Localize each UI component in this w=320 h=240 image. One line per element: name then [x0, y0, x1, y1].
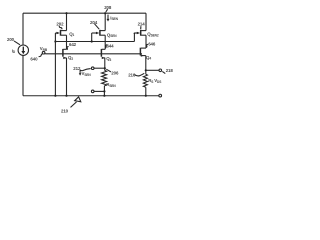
svg-text:VSEN: VSEN	[82, 71, 92, 77]
leader 640	[39, 54, 43, 57]
junction RS bottom rail	[145, 95, 147, 97]
leader 206	[106, 69, 111, 72]
svg-text:210: 210	[61, 108, 69, 113]
svg-text:646: 646	[148, 41, 156, 46]
svg-text:ISEN: ISEN	[110, 15, 118, 21]
resistor RS	[143, 74, 147, 87]
transistor Q2	[63, 49, 67, 59]
wire to VDS terminal	[146, 69, 159, 71]
wire bottom rail	[23, 95, 159, 97]
resistor RSEN	[102, 70, 107, 86]
wire QSEN2 gate riser	[133, 33, 135, 42]
svg-text:Q2: Q2	[68, 55, 73, 61]
junction QSEN rail	[104, 12, 106, 14]
svg-text:ID: ID	[12, 48, 16, 54]
wire QSEN2 drain to rail corner	[145, 13, 147, 30]
svg-text:204: 204	[90, 20, 98, 25]
wire Q2 source down	[66, 58, 68, 96]
svg-text:212: 212	[73, 66, 81, 71]
wire mirror gate bus	[55, 41, 134, 43]
wire QSEN source down	[104, 35, 106, 49]
leader 202	[59, 26, 62, 29]
leader 204	[95, 24, 100, 29]
wire VRB to bias bus	[45, 53, 142, 55]
svg-text:QSEN: QSEN	[107, 32, 117, 38]
wire mirror bus down to bottom rail	[54, 42, 56, 96]
junction VDS tap	[145, 69, 147, 71]
leader 646	[146, 44, 148, 47]
leader 642	[67, 47, 69, 50]
wire Q3 source down	[104, 58, 106, 71]
svg-text:202: 202	[56, 22, 64, 27]
junction bus QSEN	[91, 40, 93, 42]
leader 218	[162, 71, 165, 73]
svg-text:RSEN: RSEN	[106, 82, 116, 88]
wire Q1 source down	[66, 35, 68, 49]
leader 210 open arrow	[71, 102, 77, 108]
leader 216	[134, 73, 144, 76]
transistor Q1	[55, 30, 66, 36]
svg-text:642: 642	[69, 42, 77, 47]
terminal bottom right	[159, 94, 162, 97]
wire to VSEN minus terminal	[94, 90, 104, 92]
current source arrow	[21, 47, 25, 55]
wire top rail	[23, 12, 146, 14]
leader 208	[106, 9, 108, 12]
current source ID 200 circle	[18, 45, 28, 55]
leader 214	[140, 26, 142, 29]
wire to VSEN plus terminal	[94, 67, 105, 69]
terminal VSEN minus	[91, 90, 94, 93]
wire QSEN2 source down	[145, 35, 147, 48]
wire QSEN gate riser	[91, 33, 93, 42]
transistor Q3	[101, 49, 105, 59]
wire Q4 source down	[145, 56, 147, 75]
svg-text:200: 200	[7, 37, 15, 42]
wire RS bottom lead	[145, 87, 147, 95]
wire Q1 gate riser	[54, 33, 56, 42]
junction VSEN plus tap	[104, 67, 106, 69]
svg-text:216: 216	[128, 72, 136, 77]
wire QSEN drain to rail	[104, 13, 106, 30]
svg-text:208: 208	[104, 5, 112, 10]
svg-text:206: 206	[111, 71, 119, 76]
svg-text:Q4: Q4	[146, 55, 151, 61]
terminal VRB 640	[42, 51, 45, 54]
leader 200	[14, 41, 20, 45]
svg-text:VRB: VRB	[40, 46, 48, 52]
svg-text:Q3: Q3	[106, 56, 111, 62]
junction Q2 bottom rail	[65, 95, 67, 97]
junction QSEN2 gate corner	[134, 33, 136, 35]
leader 644	[105, 45, 107, 48]
svg-text:QSEN2: QSEN2	[147, 32, 159, 38]
svg-text:VDS: VDS	[154, 78, 161, 84]
terminal VSEN plus	[91, 67, 94, 70]
svg-text:218: 218	[166, 68, 174, 73]
transistor QSEN2	[134, 30, 146, 36]
leader 212	[80, 69, 91, 71]
svg-text:640: 640	[30, 56, 38, 61]
wire RSEN bottom lead	[103, 86, 105, 96]
arrow VSEN polarity	[79, 70, 82, 75]
junction RSEN bottom rail	[103, 95, 105, 97]
transistor QSEN	[92, 30, 106, 36]
terminal VDS 218	[159, 69, 162, 72]
wire Q1 drain to rail	[66, 13, 68, 30]
junction mirror bus left	[54, 40, 56, 42]
junction Q1 rail	[65, 12, 67, 14]
svg-text:Q1: Q1	[69, 31, 74, 37]
transistor Q4	[140, 48, 146, 57]
junction bus bottom rail	[54, 95, 56, 97]
junction VSEN minus tap	[103, 90, 105, 92]
wire left branch bottom	[22, 55, 24, 95]
svg-text:214: 214	[138, 22, 146, 27]
arrow ISEN	[107, 15, 110, 22]
wire left branch top	[22, 13, 24, 45]
svg-text:RS: RS	[148, 78, 153, 84]
svg-text:644: 644	[107, 43, 115, 48]
